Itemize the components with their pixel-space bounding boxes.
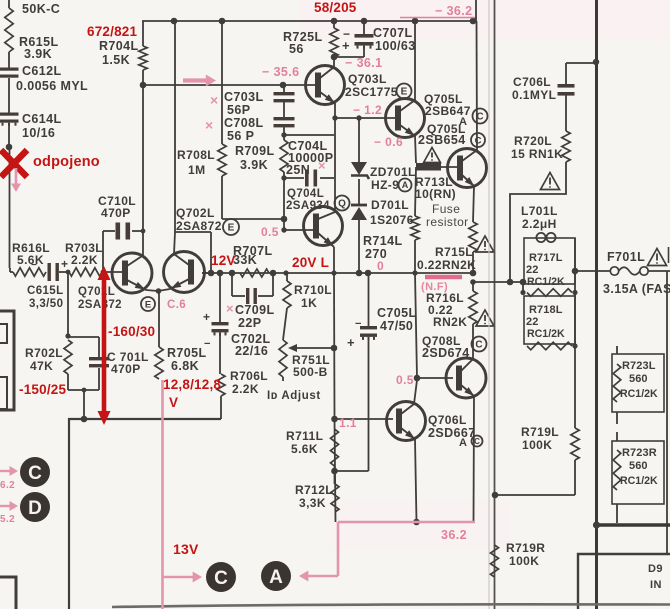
svg-text:RN2K: RN2K xyxy=(433,315,467,329)
svg-text:R717L: R717L xyxy=(529,252,563,264)
svg-text:2SA934: 2SA934 xyxy=(286,200,330,212)
pink value -35.6 xyxy=(262,65,300,79)
svg-text:Q704L: Q704L xyxy=(287,188,324,200)
terminal C bottom xyxy=(206,562,236,592)
wire X-R616 xyxy=(9,147,11,268)
svg-text:2SC1775: 2SC1775 xyxy=(345,85,398,99)
svg-text:12,8/12,8: 12,8/12,8 xyxy=(163,377,221,392)
svg-text:− 36.1: − 36.1 xyxy=(345,56,383,70)
svg-text:36.2: 36.2 xyxy=(441,528,467,542)
svg-text:×: × xyxy=(205,117,214,133)
resistor R717 zigzag xyxy=(520,289,577,297)
node R704 bottom xyxy=(140,82,147,89)
wire B647 emitter xyxy=(415,136,416,163)
wire Q701 collector xyxy=(142,85,144,256)
resistor R718 zigzag xyxy=(527,342,578,350)
wire R702C701 bottom xyxy=(68,374,99,419)
svg-text:RC1/2K: RC1/2K xyxy=(527,328,565,340)
label fuse resistor xyxy=(426,202,469,229)
svg-text:R706L: R706L xyxy=(230,369,268,383)
svg-text:2.2μH: 2.2μH xyxy=(522,217,557,231)
label L701L xyxy=(521,204,558,231)
transistor Q701 xyxy=(112,253,152,293)
svg-text:56 P: 56 P xyxy=(227,129,254,143)
resistor R708L xyxy=(177,21,226,219)
warning triangle R713 xyxy=(424,148,441,163)
svg-text:R720L: R720L xyxy=(514,134,552,148)
capacitor C709L xyxy=(232,273,275,330)
resistor R723R zigzag xyxy=(613,432,621,523)
svg-text:− 0.6: − 0.6 xyxy=(374,135,403,149)
svg-text:560: 560 xyxy=(629,460,648,472)
thick bus line xyxy=(595,0,598,609)
svg-text:10/16: 10/16 xyxy=(22,126,55,140)
svg-text:Q702L: Q702L xyxy=(176,206,215,220)
svg-text:100/63: 100/63 xyxy=(375,39,416,53)
RC unit R718L box xyxy=(524,296,575,344)
svg-text:L701L: L701L xyxy=(521,204,558,218)
wire Q708 base xyxy=(417,377,453,379)
svg-text:12V: 12V xyxy=(211,253,236,268)
svg-text:672/821: 672/821 xyxy=(87,24,137,39)
red label -160/30 xyxy=(108,324,155,339)
svg-text:100K: 100K xyxy=(509,554,539,568)
svg-text:×: × xyxy=(226,301,234,316)
svg-text:2SB654: 2SB654 xyxy=(418,133,466,147)
svg-text:C705L: C705L xyxy=(377,306,417,320)
svg-text:Iᴅ Adjust: Iᴅ Adjust xyxy=(267,390,321,402)
capacitor C612L xyxy=(0,64,88,93)
capacitor C614L xyxy=(0,112,62,140)
RC unit R723R box xyxy=(612,441,664,504)
wire Q704 emitter xyxy=(333,247,335,273)
resistor R705L xyxy=(155,346,207,379)
svg-text:15 RN1K: 15 RN1K xyxy=(511,147,563,161)
wire Q703 collector xyxy=(333,57,335,67)
wire Q706 emitter xyxy=(415,439,417,522)
pink label -36.2 top xyxy=(400,4,477,18)
mid rail dots xyxy=(208,270,477,277)
pink arrow to A xyxy=(299,571,338,582)
fuse F701L xyxy=(610,267,648,275)
node pink rail xyxy=(413,519,420,526)
pink NF mark xyxy=(421,277,462,293)
pink arrow to C xyxy=(163,572,203,583)
svg-text:R705L: R705L xyxy=(167,346,207,360)
terminal A bottom xyxy=(261,561,291,591)
svg-text:+: + xyxy=(347,335,355,350)
capacitor C615L xyxy=(27,257,68,310)
thick bus horizontal xyxy=(593,521,670,528)
warning triangle L701 xyxy=(540,173,559,190)
pink x mark2 xyxy=(205,117,214,133)
pink value C.6 xyxy=(167,299,186,311)
svg-text:560: 560 xyxy=(629,373,648,385)
wire Q706 base xyxy=(335,418,394,420)
wire Q703-Q704 xyxy=(334,118,336,213)
RC unit R723L box xyxy=(612,354,664,412)
red label 58/205 xyxy=(314,0,357,15)
pink value -1.2 xyxy=(353,103,382,117)
transistor Q704 xyxy=(304,207,343,248)
pink value 0.5 q708 xyxy=(396,373,414,387)
wire zener top xyxy=(358,118,360,162)
resistor R706L xyxy=(217,369,268,396)
svg-text:56: 56 xyxy=(289,42,304,56)
svg-text:C707L: C707L xyxy=(373,26,413,40)
svg-text:+: + xyxy=(203,310,210,324)
svg-text:C: C xyxy=(474,437,480,446)
svg-text:22: 22 xyxy=(526,264,538,276)
svg-text:RC1/2K: RC1/2K xyxy=(620,475,658,487)
svg-text:3.9K: 3.9K xyxy=(24,47,52,61)
wire Q708 emitter xyxy=(473,396,476,522)
svg-text:A: A xyxy=(402,180,409,190)
svg-text:Q706L: Q706L xyxy=(428,413,467,427)
right rail xyxy=(666,271,668,554)
pink value 0 xyxy=(377,259,384,273)
svg-text:D701L: D701L xyxy=(371,198,409,212)
svg-text:R719L: R719L xyxy=(521,425,559,439)
svg-text:− 36.2: − 36.2 xyxy=(435,4,473,18)
capacitor C707L xyxy=(334,21,416,57)
terminal C left xyxy=(20,457,50,487)
resistor R704L xyxy=(99,21,147,85)
label Q705L-2SB647 xyxy=(424,92,488,128)
wire Q703 emitter xyxy=(334,103,336,118)
svg-text:×: × xyxy=(210,92,219,108)
wire R708 to node xyxy=(222,216,287,223)
rail dots xyxy=(171,18,477,25)
transistor Q705b xyxy=(448,149,487,188)
wire C615-R703 xyxy=(59,270,70,275)
svg-text:C614L: C614L xyxy=(22,112,62,126)
svg-text:C: C xyxy=(28,463,42,484)
svg-text:C: C xyxy=(475,340,482,351)
svg-text:C706L: C706L xyxy=(513,75,551,89)
svg-text:C709L: C709L xyxy=(235,303,275,317)
svg-text:3,3K: 3,3K xyxy=(299,496,326,510)
svg-text:RC1/2K: RC1/2K xyxy=(620,388,658,400)
resistor R719R xyxy=(491,541,546,577)
svg-text:resistor: resistor xyxy=(426,215,469,229)
capacitor C703L xyxy=(224,85,295,117)
wire R713-B654 base xyxy=(441,166,458,168)
svg-text:3,3/50: 3,3/50 xyxy=(29,298,63,310)
resistor R714L xyxy=(363,216,419,273)
node R715 bottom xyxy=(470,279,476,285)
wire R702C701 top bar xyxy=(68,336,99,338)
wire C708-Q703col xyxy=(284,134,334,136)
scan crease xyxy=(488,0,490,609)
resistor R716L xyxy=(426,282,477,359)
pink x mark1 xyxy=(210,92,219,108)
svg-text:V: V xyxy=(169,395,178,410)
label Q708L xyxy=(422,334,487,360)
wire B654 emitter xyxy=(473,186,474,222)
node C706 top xyxy=(593,59,599,65)
svg-text:+: + xyxy=(61,257,68,271)
svg-text:470P: 470P xyxy=(111,362,141,376)
wire mid column xyxy=(333,273,336,419)
fusible resistor R713L bar xyxy=(416,163,441,171)
svg-text:58/205: 58/205 xyxy=(314,0,357,15)
wire y118 xyxy=(335,115,396,120)
transistor Q708 xyxy=(446,358,486,398)
svg-text:+: + xyxy=(342,38,350,53)
svg-text:25N: 25N xyxy=(286,163,310,177)
red label 13V xyxy=(173,541,199,557)
wire collector-base tie xyxy=(175,232,211,273)
capacitor C702L xyxy=(203,273,271,374)
pink arrow down xyxy=(11,168,21,192)
resistor R709L xyxy=(235,140,288,230)
svg-text:0.5: 0.5 xyxy=(261,225,279,239)
pink value 1.1 xyxy=(339,416,357,430)
wire zener-diode xyxy=(358,179,360,205)
label Q704L xyxy=(286,188,350,212)
svg-text:22/16: 22/16 xyxy=(235,344,268,358)
pink arrow right xyxy=(183,75,216,87)
connector box upper xyxy=(0,311,14,410)
svg-text:1.5K: 1.5K xyxy=(102,53,130,67)
svg-text:R712L: R712L xyxy=(295,483,333,497)
red label odpojeno xyxy=(33,154,100,170)
pink value 0.5 q704 xyxy=(261,225,279,239)
wire B647 collector xyxy=(414,21,416,100)
terminal D left xyxy=(20,492,50,522)
capacitor C705L xyxy=(347,273,417,471)
svg-text:0.0056 MYL: 0.0056 MYL xyxy=(16,79,88,93)
pink value -0.6 xyxy=(374,135,403,149)
label 33K xyxy=(233,253,257,267)
label 3.15A xyxy=(603,282,670,296)
svg-text:3.9K: 3.9K xyxy=(240,158,268,172)
svg-text:2SD674: 2SD674 xyxy=(422,346,470,360)
svg-text:500-B: 500-B xyxy=(293,365,328,379)
svg-text:IN: IN xyxy=(650,579,662,591)
supply rail -36V xyxy=(142,20,474,22)
red measure arrow xyxy=(98,266,111,425)
transistor Q703 xyxy=(306,66,345,105)
svg-text:Q703L: Q703L xyxy=(348,72,387,86)
wire C710 left leg xyxy=(102,231,104,272)
svg-text:C708L: C708L xyxy=(224,116,264,130)
node bottom xyxy=(81,416,88,423)
svg-text:odpojeno: odpojeno xyxy=(33,154,100,170)
label R713L xyxy=(415,175,456,201)
pink arrow to D left xyxy=(0,501,18,525)
svg-text:R710L: R710L xyxy=(294,283,332,297)
svg-text:C703L: C703L xyxy=(224,90,264,104)
capacitor C704L xyxy=(284,139,334,187)
svg-text:C.6: C.6 xyxy=(167,299,186,311)
wire R703-Q701 base xyxy=(101,270,124,275)
wire mid rail xyxy=(202,272,473,274)
red label 672/821 xyxy=(87,24,137,39)
svg-text:6.8K: 6.8K xyxy=(171,359,199,373)
resistor R725L xyxy=(283,21,338,57)
svg-text:22: 22 xyxy=(526,316,538,328)
resistor R719L xyxy=(521,425,579,495)
svg-text:5.6K: 5.6K xyxy=(291,442,318,456)
svg-text:−: − xyxy=(204,338,211,350)
svg-text:− 1.2: − 1.2 xyxy=(353,103,382,117)
wire C705-R711 node xyxy=(335,470,369,472)
pink x mark4 xyxy=(226,301,234,316)
svg-text:×: × xyxy=(318,158,326,173)
resistor R720L xyxy=(511,131,570,162)
resistor R703L xyxy=(65,241,103,276)
feedback line xyxy=(494,0,496,609)
pink line x163 xyxy=(161,380,164,609)
svg-text:R719R: R719R xyxy=(506,541,545,555)
svg-text:13V: 13V xyxy=(173,541,199,557)
svg-text:R723L: R723L xyxy=(622,360,656,372)
connector box lower xyxy=(0,577,16,609)
warning triangle F701 xyxy=(647,247,668,266)
wire emitters join xyxy=(146,288,170,294)
svg-text:R702L: R702L xyxy=(25,346,63,360)
node R711 bottom xyxy=(331,468,338,475)
svg-text:-160/30: -160/30 xyxy=(108,324,155,339)
capacitor C710L xyxy=(98,194,145,240)
svg-text:R708L: R708L xyxy=(177,148,215,162)
resistor R710L xyxy=(283,273,332,310)
svg-text:2.2K: 2.2K xyxy=(232,382,259,396)
node Q704 base tap xyxy=(281,227,286,232)
svg-text:22P: 22P xyxy=(238,316,261,330)
zener ZD701L xyxy=(351,162,416,192)
node R725 bottom xyxy=(331,54,338,61)
label Q702L xyxy=(176,206,239,235)
label Q703L xyxy=(345,72,412,99)
svg-text:E: E xyxy=(228,223,235,234)
pink value -36.1 xyxy=(345,56,383,70)
svg-text:R714L: R714L xyxy=(363,234,403,248)
wire C706-R720 xyxy=(565,95,567,131)
resistor R616L xyxy=(12,241,50,276)
svg-text:R718L: R718L xyxy=(529,304,563,316)
svg-text:-150/25: -150/25 xyxy=(19,382,66,397)
RC unit R717L box xyxy=(524,233,575,288)
svg-text:0: 0 xyxy=(377,259,384,273)
svg-text:100K: 100K xyxy=(522,438,552,452)
svg-text:1K: 1K xyxy=(301,296,317,310)
wire Q702 collector up xyxy=(174,21,175,254)
svg-text:10(RN): 10(RN) xyxy=(415,187,456,201)
wire diode bottom xyxy=(358,220,360,273)
node wiper xyxy=(331,345,338,352)
resistor R702L xyxy=(25,340,72,374)
wire R711-R712 xyxy=(334,466,336,484)
label Q706L xyxy=(428,413,483,449)
red label 20V L xyxy=(292,255,329,270)
wire R710-R751 xyxy=(283,308,287,340)
svg-text:20V L: 20V L xyxy=(292,255,329,270)
wire Q702 base xyxy=(202,272,213,274)
wire emitter node down xyxy=(158,291,160,347)
svg-text:C615L: C615L xyxy=(27,285,64,297)
wire to fuse xyxy=(575,270,610,272)
svg-text:ZD701L: ZD701L xyxy=(370,165,416,179)
svg-text:C612L: C612L xyxy=(22,64,62,78)
svg-text:C: C xyxy=(475,135,482,146)
svg-text:R711L: R711L xyxy=(286,429,323,443)
wire top right corner xyxy=(475,0,477,21)
svg-text:1S2076: 1S2076 xyxy=(370,213,414,227)
warning triangle R716 xyxy=(476,310,494,326)
pink x mark3 xyxy=(318,158,326,173)
svg-text:D: D xyxy=(28,498,42,519)
red label -150/25 xyxy=(19,382,66,397)
svg-text:R715L: R715L xyxy=(435,245,473,259)
node C708 bottom xyxy=(281,132,286,137)
label F701L xyxy=(607,250,645,264)
node R616 left xyxy=(10,268,13,272)
svg-text:47K: 47K xyxy=(30,359,53,373)
transistor Q706 xyxy=(387,402,426,441)
wire to RC units xyxy=(473,279,526,286)
resistor R711L xyxy=(286,429,339,466)
trimmer wiper arrow xyxy=(288,344,334,352)
svg-text:R707L: R707L xyxy=(233,244,273,258)
wire Q706 collector xyxy=(414,380,417,404)
svg-text:RC1/2K: RC1/2K xyxy=(527,276,565,288)
svg-text:Q701L: Q701L xyxy=(78,286,115,298)
resistor R712L xyxy=(295,483,339,512)
node Q708 base xyxy=(414,375,421,382)
label Q701L xyxy=(78,286,155,311)
resistor R723L zigzag xyxy=(613,346,621,424)
wire R615-C612 xyxy=(8,52,10,68)
wire mid column2 xyxy=(335,419,336,522)
left link R717 xyxy=(522,282,524,293)
node emitter wire xyxy=(332,115,337,120)
svg-text:HZ-9: HZ-9 xyxy=(371,178,399,192)
red label 12,8/12,8 xyxy=(163,377,221,410)
svg-text:Q: Q xyxy=(338,199,346,210)
svg-text:2.2K: 2.2K xyxy=(71,253,98,267)
resistor R707L xyxy=(240,269,269,277)
label Q705L-2SB654 xyxy=(418,122,485,147)
wire R714-Q708base xyxy=(415,273,417,378)
svg-text:1M: 1M xyxy=(188,163,205,177)
pink label 36.2 xyxy=(441,528,467,542)
wire VAS base xyxy=(143,82,315,89)
wire R714 top xyxy=(415,167,416,216)
wire R719L bottom xyxy=(495,494,575,496)
svg-text:2SA872: 2SA872 xyxy=(78,299,122,311)
node Q706 base xyxy=(331,416,338,423)
label R707L xyxy=(233,244,273,258)
svg-text:0.1MYL: 0.1MYL xyxy=(512,88,556,102)
svg-text:F701L: F701L xyxy=(607,250,645,264)
svg-text:2SA872: 2SA872 xyxy=(176,219,222,233)
capacitor C706L xyxy=(512,75,575,102)
warning triangle R715 xyxy=(476,236,494,252)
svg-text:− 35.6: − 35.6 xyxy=(262,65,300,79)
svg-text:R709L: R709L xyxy=(235,144,275,158)
svg-text:A: A xyxy=(459,437,467,449)
svg-text:A: A xyxy=(269,567,283,588)
right link rail xyxy=(572,238,579,428)
resistor R615L xyxy=(5,8,59,61)
wire fuse right xyxy=(648,270,670,272)
label 50K-C xyxy=(22,2,60,16)
wire C614-X xyxy=(6,123,13,150)
resistor R715L xyxy=(417,222,477,273)
